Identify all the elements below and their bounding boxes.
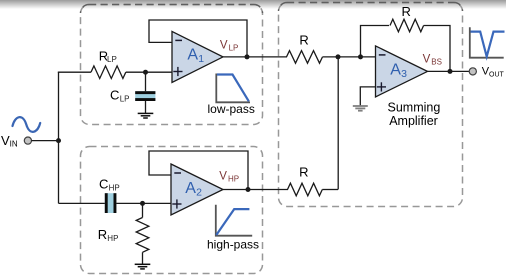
svg-text:Summing: Summing [388,101,441,115]
R value label top-left [299,33,308,48]
svg-text:R: R [98,227,107,242]
svg-text:C: C [110,88,119,103]
source sine symbol [13,117,41,132]
V_LP label [220,39,238,52]
low-pass caption [208,102,255,116]
wire R_LP to node [126,71,173,73]
svg-text:low-pass: low-pass [208,102,255,116]
wire A3 output [428,70,470,72]
V_OUT label [482,66,505,79]
high-pass filter block box [81,147,263,274]
svg-text:A: A [185,180,196,197]
svg-text:A: A [187,47,198,64]
wire R to A3 minus [323,56,377,58]
high-pass caption [207,238,259,252]
wire A3 plus input [360,87,376,106]
V_BS label [423,54,442,67]
wire A1 output [223,56,287,58]
A2 label [185,180,202,198]
output terminal [469,68,476,75]
low-pass filter block box [81,5,263,125]
svg-text:1: 1 [198,53,204,65]
svg-text:V: V [423,54,431,66]
A3 label [390,62,407,80]
R_LP value label [99,49,117,65]
wire node to C_LP [145,72,147,91]
svg-text:IN: IN [10,140,18,149]
svg-text:BS: BS [431,58,442,67]
low-pass response icon [216,74,250,103]
R feedback value label [402,4,411,19]
svg-text:OUT: OUT [489,72,505,79]
V_HP label [219,171,239,184]
summing box top edge dark dashes [279,3,463,12]
svg-text:3: 3 [401,68,407,80]
op-amp A2 [171,164,223,215]
C_LP value label [110,88,129,104]
svg-text:LP: LP [107,55,117,64]
resistor R_HP [136,218,149,253]
svg-text:V: V [220,39,228,51]
resistor R feedback [390,19,424,32]
node A3 output [448,69,453,74]
resistor R input from low-pass [287,51,323,64]
node LP input [143,70,148,75]
svg-text:R: R [402,4,411,19]
wire C_HP to node [116,202,171,204]
ground under R_HP [135,264,151,269]
R value label bottom [299,165,308,180]
svg-text:2: 2 [196,187,202,199]
resistor R_LP [91,66,126,79]
A1 feedback wire [149,20,247,57]
svg-text:Amplifier: Amplifier [389,114,438,128]
wire A2 output [223,189,288,191]
svg-text:LP: LP [229,43,239,52]
band-stop response icon [470,27,505,57]
svg-text:A: A [390,62,401,79]
svg-text:C: C [99,176,108,191]
node summing junction from high-pass [336,54,341,59]
R_HP value label [98,227,119,243]
Summing Amplifier caption [388,101,441,129]
wire feedback branch up [361,26,390,57]
input terminal [24,137,31,144]
wire R_HP to ground [142,252,144,264]
node at input split [56,138,61,143]
wire from input terminal [32,140,59,142]
node summing junction feedback [358,54,363,59]
svg-text:HP: HP [109,184,120,193]
wire feedback to output [424,26,450,72]
ground at A3 plus [353,106,368,111]
wire C_LP to ground [145,101,147,113]
capacitor C_LP [135,91,155,101]
svg-text:R: R [299,165,308,180]
op-amp A3 [376,46,428,97]
node A2 output [246,187,251,192]
svg-text:V: V [219,171,227,183]
summing amplifier block box [279,3,463,207]
resistor R input from high-pass [288,183,323,196]
svg-text:LP: LP [120,95,130,104]
capacitor C_HP [105,193,117,213]
svg-text:high-pass: high-pass [207,238,259,252]
C_HP value label [99,176,120,192]
svg-text:HP: HP [228,175,239,184]
wire to C_HP [59,202,106,204]
svg-text:HP: HP [107,234,118,243]
V_IN label [1,133,18,149]
op-amp A1 [172,31,223,82]
low-pass box top edge dark dashes [81,5,263,14]
wire R2 to vertical riser [322,189,338,191]
wire input rail vertical [58,72,60,203]
wire node to R_HP [142,203,144,217]
node HP input [140,201,145,206]
ground under C_LP [138,113,154,118]
svg-text:R: R [299,33,308,48]
node A1 output [245,54,250,59]
wire to R_LP [58,71,91,73]
wire vertical from R2 to summing junction [337,57,339,190]
high-pass response icon [216,205,252,236]
A1 label [187,47,204,65]
A2 feedback wire [149,151,248,190]
